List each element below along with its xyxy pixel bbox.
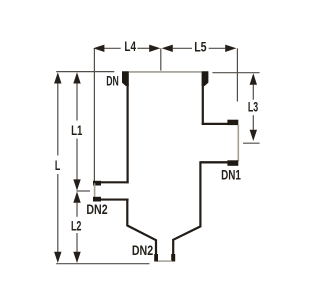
svg-text:L1: L1 bbox=[71, 122, 82, 138]
DN1 socket bottom gasket bbox=[227, 160, 238, 166]
DN2 socket mouth bbox=[94, 183, 96, 199]
dimension L line bbox=[57, 84, 59, 156]
svg-text:DN: DN bbox=[106, 73, 119, 89]
axis tick below L4/L5 junction bbox=[160, 48, 162, 70]
arrowhead L4 right bbox=[149, 45, 160, 52]
DN1 socket top edge bbox=[202, 123, 238, 125]
extension line DN2 axis bbox=[77, 190, 91, 192]
fitting top socket mouth (DN opening) bbox=[129, 71, 202, 73]
arrowhead L bottom bbox=[54, 252, 61, 263]
svg-text:DN2: DN2 bbox=[86, 201, 107, 217]
arrowhead L4 left bbox=[93, 45, 104, 52]
svg-text:L3: L3 bbox=[248, 98, 258, 114]
svg-text:L4: L4 bbox=[124, 38, 136, 54]
gasket top-right (DN socket) bbox=[202, 71, 209, 86]
extension line top-left (L/L1 top reference) bbox=[56, 71, 114, 73]
arrowhead L2 top bbox=[73, 192, 80, 203]
gasket top-left (DN socket) bbox=[122, 71, 129, 86]
svg-text:DN2: DN2 bbox=[132, 242, 153, 258]
DN2 socket bottom edge bbox=[95, 199, 129, 201]
DN1 socket bottom edge bbox=[200, 161, 238, 163]
arrowhead L top bbox=[54, 72, 61, 83]
arrowhead L5 right bbox=[225, 45, 236, 52]
arrowhead L1 top bbox=[73, 72, 80, 83]
arrowhead L3 top bbox=[250, 73, 257, 84]
extension line right (L5 reference / DN1 mouth plane) bbox=[236, 48, 238, 101]
DN2 socket bottom gasket bbox=[93, 197, 101, 202]
svg-text:L5: L5 bbox=[194, 39, 207, 55]
bottom outlet mouth bbox=[158, 260, 173, 262]
arrowhead L2 bottom bbox=[73, 252, 80, 263]
dimension L1 line bbox=[76, 84, 78, 121]
left body wall lower, funnel left diagonal, bottom outlet left wall bbox=[127, 199, 156, 256]
extension line top-right (L3 top reference) bbox=[212, 72, 259, 74]
extension line bottom-left (L/L2 bottom reference) bbox=[56, 263, 149, 265]
arrowhead L3 bottom bbox=[250, 130, 257, 141]
svg-text:L2: L2 bbox=[71, 218, 82, 234]
dimension L5 line bbox=[173, 47, 192, 49]
bottom outlet right foot gasket bbox=[171, 254, 175, 262]
svg-text:L: L bbox=[55, 157, 61, 173]
arrowhead L5 left bbox=[162, 45, 173, 52]
DN1 socket mouth bbox=[237, 125, 239, 161]
dimension L4 line bbox=[104, 47, 121, 49]
left body wall bbox=[126, 84, 128, 183]
dimension L2 line bbox=[76, 203, 78, 217]
right body wall lower, funnel right diagonal, bottom outlet right wall bbox=[173, 161, 200, 255]
DN2 socket top edge bbox=[95, 181, 129, 183]
arrowhead L1 bottom bbox=[73, 179, 80, 190]
extension line DN1 axis (L3 bottom reference) bbox=[243, 142, 260, 144]
right body wall upper bbox=[202, 84, 204, 125]
extension line left (L4 reference / DN2 mouth plane) bbox=[93, 48, 95, 181]
svg-text:DN1: DN1 bbox=[221, 167, 241, 183]
dimension L3 line bbox=[252, 85, 254, 100]
DN1 socket top gasket bbox=[227, 120, 238, 125]
bottom outlet left foot gasket bbox=[154, 254, 158, 262]
DN2 socket top gasket bbox=[93, 181, 101, 186]
